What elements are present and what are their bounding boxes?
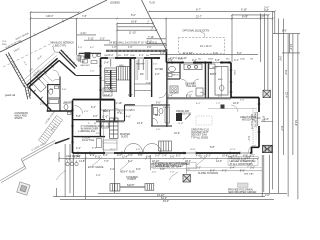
svg-text:6'-2": 6'-2" (91, 106, 96, 109)
svg-text:11'-10": 11'-10" (129, 32, 136, 35)
svg-text:WOOD FLR: WOOD FLR (178, 113, 191, 116)
hall coat closet (103, 88, 112, 96)
dim vertical x232 (231, 15, 233, 62)
svg-text:10'-4": 10'-4" (104, 94, 110, 97)
svg-text:1'-2": 1'-2" (96, 175, 101, 177)
svg-text:63'-0": 63'-0" (163, 200, 169, 203)
dim vertical bottom x262.2 (261, 155, 263, 197)
svg-text:7'-0": 7'-0" (170, 172, 175, 174)
dim top third horizontal right (232, 14, 269, 16)
svg-text:2'-0": 2'-0" (265, 194, 270, 197)
svg-text:8'-0": 8'-0" (280, 126, 283, 131)
svg-text:8'-6": 8'-6" (284, 70, 287, 75)
svg-text:5'-8": 5'-8" (282, 30, 287, 33)
svg-text:2'-0": 2'-0" (156, 129, 161, 131)
svg-text:DN: DN (140, 73, 144, 76)
leader arrows bottom (56, 156, 254, 180)
entry porch step band (106, 50, 167, 52)
wall bath vertical (151, 104, 153, 126)
dim vertical x272.7 (272, 11, 274, 189)
svg-text:3'-0": 3'-0" (155, 154, 160, 157)
svg-text:SUITE: SUITE (121, 136, 128, 139)
dim bar row3 (117, 29, 156, 31)
svg-text:3'-4": 3'-4" (168, 94, 173, 97)
svg-text:4'-0": 4'-0" (78, 47, 83, 49)
svg-text:BA 3: BA 3 (218, 78, 223, 81)
connector top wall (79, 52, 101, 54)
property tick marks (20, 20, 64, 43)
svg-text:2868: 2868 (178, 59, 184, 61)
svg-text:9'-2": 9'-2" (192, 59, 197, 62)
svg-text:SH: SH (250, 59, 253, 61)
kitchen counters (167, 64, 202, 73)
upper deck band hatched (59, 50, 77, 69)
pantry shelves (136, 60, 148, 80)
svg-text:3'-5": 3'-5" (128, 154, 133, 157)
dim left vertical (30, 12, 32, 96)
svg-text:12'-4": 12'-4" (230, 149, 236, 151)
svg-text:LINE (TYP): LINE (TYP) (54, 44, 66, 47)
svg-text:22'-4": 22'-4" (285, 92, 288, 98)
svg-text:7'-4": 7'-4" (162, 154, 167, 157)
svg-text:PORCH: PORCH (128, 178, 137, 181)
note boxes bottom right (153, 162, 196, 168)
window breaks top wall (105, 58, 259, 153)
connector left jamb (78, 53, 80, 62)
closet right (215, 67, 228, 96)
wing interior wall vertical (47, 85, 49, 111)
dim vertical x267.9 (267, 15, 269, 90)
wall right vertical (258, 98, 260, 148)
svg-text:2'-0": 2'-0" (155, 73, 160, 76)
svg-text:FND: FND (2, 44, 7, 46)
powder room sink (68, 112, 72, 115)
great room arcs (231, 105, 238, 112)
hatched post bottom center-right (183, 163, 191, 182)
svg-text:TILE FLR: TILE FLR (186, 85, 197, 88)
svg-text:3'-4": 3'-4" (104, 62, 109, 65)
wall se notch (252, 147, 260, 153)
wall bath horizontal (152, 104, 170, 106)
connector south wall (76, 75, 101, 77)
dim top main horizontal (31, 18, 273, 20)
dim vertical bottom x73.5 (73, 153, 75, 197)
property line diagonal right (142, 0, 167, 50)
setback dashed line parallel (3, 44, 50, 67)
dim vertical x289.3 short (288, 34, 290, 53)
svg-text:4'-8": 4'-8" (163, 107, 168, 109)
option box leader (200, 32, 205, 38)
walkway band upper-left (6, 53, 31, 100)
svg-text:2'-4": 2'-4" (76, 147, 81, 150)
svg-text:2'-1": 2'-1" (139, 55, 144, 57)
svg-text:6'-8": 6'-8" (146, 156, 151, 159)
svg-text:2'-6": 2'-6" (152, 172, 157, 174)
svg-text:3'-1": 3'-1" (234, 59, 239, 62)
wing door arc (53, 70, 59, 76)
svg-text:16'-4" CLG HT: 16'-4" CLG HT (250, 114, 253, 130)
svg-text:8'-2": 8'-2" (176, 154, 181, 157)
svg-text:3'-0": 3'-0" (147, 47, 152, 49)
wall stair-hall vertical (151, 58, 153, 97)
svg-text:FROM BLDG TYP 1/4":12": FROM BLDG TYP 1/4":12" (155, 165, 184, 168)
wardrobe block WIC (110, 118, 119, 138)
svg-text:GRAVEL FILL: GRAVEL FILL (81, 130, 97, 133)
wall laundry vertical (205, 63, 207, 99)
svg-text:6x6 PT: 6x6 PT (127, 184, 135, 187)
min bldg setback leader (53, 46, 61, 53)
svg-text:8'-09": 8'-09" (242, 16, 248, 19)
wing inner partition vertical (59, 76, 61, 111)
dim right horizontal y33.7 (273, 33, 300, 35)
dim vertical bottom x269.6 (269, 155, 271, 193)
svg-text:3'-2": 3'-2" (100, 37, 105, 40)
dim left vertical 2 (76, 19, 78, 56)
svg-text:1'-2": 1'-2" (112, 47, 117, 49)
svg-text:2'-2": 2'-2" (218, 94, 223, 97)
svg-text:7'-2": 7'-2" (216, 103, 221, 105)
svg-text:133'-0": 133'-0" (46, 15, 54, 18)
mudroom door arc (75, 106, 83, 114)
dim vertical x288.1 (287, 34, 289, 197)
interior ceiling line great room (208, 108, 257, 110)
dim vertical x274.8 (274, 11, 276, 33)
svg-text:12x12 TILE: 12x12 TILE (82, 139, 95, 142)
svg-text:2'-2": 2'-2" (250, 154, 255, 157)
dim top-left upper horizontal (31, 11, 80, 13)
svg-text:3068: 3068 (208, 59, 214, 61)
wall laundry south (167, 78, 180, 80)
svg-text:8'-8": 8'-8" (210, 146, 215, 149)
svg-text:9'-6": 9'-6" (136, 168, 141, 171)
wall entry west (165, 49, 167, 63)
dim top second horizontal right (149, 10, 275, 12)
upper band hatch ticks (63, 51, 75, 64)
svg-text:75.0': 75.0' (2, 41, 7, 43)
dim bar row1 (117, 22, 153, 24)
gas meters (66, 161, 78, 166)
svg-text:6'-2": 6'-2" (90, 47, 95, 49)
svg-text:4'-6": 4'-6" (196, 154, 201, 157)
wall hall horizontal right (167, 97, 231, 99)
dim left section upper (84, 39, 110, 41)
wing bed fixture (33, 79, 46, 92)
svg-text:75.00': 75.00' (149, 3, 156, 5)
svg-text:SEE 3/A5: SEE 3/A5 (244, 173, 254, 176)
svg-text:4'-0": 4'-0" (110, 168, 115, 171)
left section stub walls (111, 58, 152, 97)
svg-text:2'-0": 2'-0" (90, 71, 95, 73)
wing NE wall (59, 60, 76, 75)
dim vertical x150.5 (150, 155, 152, 170)
svg-text:PWDR: PWDR (64, 102, 72, 105)
svg-text:3'-4": 3'-4" (247, 136, 250, 141)
entry court planters (77, 56, 97, 64)
svg-text:BATH: BATH (210, 73, 216, 76)
svg-text:MECH: MECH (172, 75, 179, 77)
svg-text:5'-2": 5'-2" (206, 154, 211, 157)
right wall dim stub (261, 120, 273, 122)
svg-text:4'-2": 4'-2" (160, 52, 165, 55)
svg-text:16'-8": 16'-8" (131, 21, 137, 24)
wing deck edge lines (26, 56, 56, 83)
svg-text:SLOPE TO DRAIN: SLOPE TO DRAIN (198, 172, 218, 175)
dim verticals master (103, 110, 105, 152)
annotation noise clusters (2, 20, 254, 176)
svg-text:5'-6": 5'-6" (138, 154, 143, 157)
porch note text row (109, 41, 158, 57)
wall laundry east double (207, 64, 209, 99)
svg-text:6'-1": 6'-1" (103, 154, 108, 157)
dim bar row2 (117, 26, 155, 28)
dim above right wall (150, 54, 258, 56)
svg-text:22'-0": 22'-0" (233, 102, 239, 105)
svg-text:0'-6": 0'-6" (264, 9, 269, 12)
wall mid-left horizontal (73, 99, 115, 101)
closet left small (102, 122, 109, 128)
gray box right of posts (238, 183, 249, 187)
svg-text:3'-6": 3'-6" (62, 89, 67, 91)
svg-text:2'-6": 2'-6" (153, 64, 158, 66)
wall tick marks texture (71, 57, 261, 155)
wall entry vertical lower (166, 63, 168, 128)
right wall annotation column (252, 108, 254, 144)
bottom band extra marks (88, 166, 135, 177)
hatched pier SE corner (263, 145, 273, 152)
svg-text:W.I.C.: W.I.C. (212, 67, 218, 69)
bath fixtures center (154, 107, 170, 123)
dim bottom long 3 (60, 198, 274, 200)
svg-text:8'-11": 8'-11" (262, 116, 265, 122)
dim vertical x292.9 (292, 34, 294, 155)
porch beam (120, 185, 145, 187)
wing inner wall horizontal (47, 84, 60, 86)
kitchen range (170, 86, 178, 93)
wing bath wall horizontal (48, 97, 60, 99)
dim stack row5 (147, 43, 167, 45)
svg-text:10' x 14'-2": 10' x 14'-2" (200, 45, 212, 48)
svg-text:5'-3": 5'-3" (84, 111, 89, 113)
exterior steps band (39, 116, 63, 145)
svg-text:5'-2": 5'-2" (109, 55, 114, 57)
interior wall shadow lines (73, 58, 232, 138)
svg-text:5'-0": 5'-0" (131, 14, 136, 17)
wall top-left section (101, 57, 161, 59)
svg-text:BED 2: BED 2 (103, 110, 111, 113)
svg-text:9'-0": 9'-0" (117, 154, 122, 157)
wall jog horizontal (231, 97, 259, 99)
svg-text:8'-6": 8'-6" (240, 170, 245, 173)
wall stair-hall east (130, 58, 132, 97)
bed2 dim line (101, 109, 135, 111)
porch post east (145, 184, 154, 191)
svg-text:4'-0": 4'-0" (126, 116, 131, 119)
porch edge line pair (104, 44, 167, 46)
svg-text:5068: 5068 (233, 70, 235, 76)
svg-text:2'-11": 2'-11" (81, 32, 87, 35)
svg-text:5'-8": 5'-8" (76, 115, 81, 118)
svg-text:6'-10": 6'-10" (241, 9, 247, 12)
wall bath south (151, 125, 172, 127)
wing window ticks (31, 65, 54, 105)
svg-text:5'-11": 5'-11" (88, 37, 94, 40)
svg-text:10'-2": 10'-2" (289, 44, 292, 50)
dim vertical x264.4 (263, 13, 265, 90)
svg-text:3'-6": 3'-6" (76, 156, 81, 159)
svg-text:11'-8": 11'-8" (178, 123, 184, 125)
svg-text:5'-2": 5'-2" (128, 160, 133, 163)
connector bath WC (93, 53, 97, 58)
master bed (97, 139, 102, 148)
svg-text:14'-8": 14'-8" (79, 160, 85, 163)
dim vertical bottom x114.4 (113, 159, 115, 194)
dim stack row4 (147, 38, 167, 40)
dim vertical x278.6 (278, 19, 280, 194)
svg-text:6'-0": 6'-0" (136, 149, 141, 151)
svg-text:4'-2": 4'-2" (222, 170, 227, 173)
wing door arc 2 (53, 79, 60, 81)
svg-text:6'-1": 6'-1" (147, 41, 152, 44)
dim vertical x59 tick (58, 152, 60, 162)
svg-text:2'-2": 2'-2" (196, 166, 201, 169)
dim bottom long 2 (53, 196, 265, 198)
dim right horizontal y52.9 (282, 52, 300, 54)
svg-text:3'-0": 3'-0" (250, 166, 255, 169)
svg-text:HALL: HALL (119, 64, 126, 67)
svg-text:10'-6": 10'-6" (96, 133, 102, 135)
svg-text:2'-8": 2'-8" (40, 103, 45, 106)
wall right upper vertical (230, 63, 232, 98)
svg-text:11'-0 3/4": 11'-0 3/4" (183, 52, 193, 55)
svg-text:31'-6": 31'-6" (294, 120, 297, 126)
svg-text:OPTIONAL BLDG EXT'N: OPTIONAL BLDG EXT'N (183, 30, 210, 33)
wing south wall (47, 110, 73, 112)
svg-text:PROVIDE POS DRAIN: PROVIDE POS DRAIN (228, 189, 253, 192)
powder room WC (64, 104, 68, 109)
wall laundry west (179, 64, 181, 80)
svg-text:5'-0": 5'-0" (170, 156, 175, 159)
laundry fixtures (168, 64, 224, 91)
wall bed horizontal (96, 120, 125, 122)
svg-text:12'-0": 12'-0" (216, 160, 222, 163)
wall mid jog (125, 104, 136, 106)
dim bar left cap (116, 23, 118, 30)
svg-text:2040: 2040 (130, 55, 136, 57)
svg-text:10'-8": 10'-8" (222, 154, 228, 157)
svg-text:7'-7": 7'-7" (92, 147, 97, 150)
svg-text:AT ALL CONDITIONS: AT ALL CONDITIONS (230, 163, 254, 166)
svg-text:3'-0": 3'-0" (93, 115, 98, 118)
svg-text:GALLERY: GALLERY (80, 64, 91, 67)
svg-text:8'-11": 8'-11" (95, 156, 101, 159)
svg-text:1'-9": 1'-9" (104, 70, 109, 73)
svg-text:1'-0": 1'-0" (260, 16, 265, 19)
svg-text:LEGEND: LEGEND (110, 2, 120, 5)
wing SW wall (29, 87, 52, 110)
svg-text:13'-2": 13'-2" (137, 122, 143, 125)
wall mudroom south (74, 135, 106, 137)
svg-text:EXIST GRADE: EXIST GRADE (88, 166, 104, 169)
svg-text:11'-6": 11'-6" (102, 116, 108, 119)
svg-text:2'-9": 2'-9" (90, 154, 95, 157)
svg-text:guard rail: guard rail (5, 94, 15, 97)
svg-text:BA 2: BA 2 (155, 114, 161, 117)
svg-text:7'-8": 7'-8" (82, 15, 87, 18)
svg-text:15'-2": 15'-2" (110, 149, 116, 151)
dim bar drop vertical (116, 30, 118, 58)
wall bottom (73, 152, 252, 154)
svg-text:8'-4": 8'-4" (78, 131, 83, 133)
svg-text:DH: DH (146, 55, 150, 57)
connector shelf (81, 56, 85, 62)
svg-text:TYP ALL SIDES: TYP ALL SIDES (191, 136, 209, 139)
svg-text:5'-0": 5'-0" (237, 52, 242, 55)
svg-text:NEW 4" SLAB: NEW 4" SLAB (120, 171, 135, 174)
svg-text:2x6 AT 16" OC: 2x6 AT 16" OC (254, 112, 257, 128)
wall bed hall vertical (114, 100, 116, 122)
dim vertical x297.9 (297, 34, 299, 200)
connector bath sink (98, 54, 101, 56)
dim bottom long 1 (98, 192, 287, 194)
stairs main U-shape (105, 67, 130, 92)
svg-text:8'-7": 8'-7" (196, 9, 201, 12)
svg-text:9'-2": 9'-2" (66, 158, 71, 161)
wall mudroom east (100, 100, 102, 137)
svg-text:18'-8": 18'-8" (190, 149, 196, 151)
wing vanity (55, 86, 59, 89)
wall bed vertical2 (124, 105, 126, 121)
svg-text:LIN: LIN (108, 74, 112, 76)
svg-text:5'-0": 5'-0" (156, 101, 161, 104)
svg-text:2'-10": 2'-10" (116, 102, 122, 105)
fireplace dining (176, 113, 182, 121)
svg-text:6'-8": 6'-8" (124, 55, 129, 57)
svg-text:6'-4": 6'-4" (196, 103, 201, 105)
door arcs (101, 79, 207, 124)
svg-text:4'-6": 4'-6" (128, 47, 133, 49)
svg-text:LINEN: LINEN (104, 126, 111, 128)
hatched pier bottom-left (17, 182, 30, 195)
wing tub (49, 100, 59, 104)
kitchen fridge (196, 88, 203, 96)
dim under building (59, 158, 258, 160)
dim vertical bottom x56.7 (56, 188, 58, 197)
svg-text:3'-2": 3'-2" (128, 94, 133, 97)
svg-text:FOYER: FOYER (155, 68, 164, 71)
dim vertical bottom x85.6 (85, 153, 87, 199)
svg-text:3'-8": 3'-8" (240, 100, 245, 102)
svg-text:7'-10": 7'-10" (148, 36, 154, 39)
wing NW wall hatched (27, 58, 59, 87)
wing closet lines (44, 73, 53, 82)
property line diagonal top-left (0, 0, 107, 52)
svg-text:PAN: PAN (108, 83, 113, 86)
patio edge lines bottom right (186, 170, 262, 172)
fireplace box (85, 52, 91, 59)
wing WC fixture (49, 89, 53, 95)
dim vertical x260.7 (260, 13, 262, 62)
dining table dashed (196, 116, 212, 125)
svg-text:3'-6": 3'-6" (279, 56, 282, 61)
dim vertical x283.3 (282, 19, 284, 156)
svg-text:PANTRY: PANTRY (136, 63, 145, 66)
dim vertical bottom x70 (69, 144, 71, 193)
svg-text:7'-6": 7'-6" (213, 52, 218, 55)
dim entry vertical (165, 19, 167, 49)
svg-text:10'-0": 10'-0" (174, 132, 180, 135)
dim vertical bottom x65 (64, 144, 66, 197)
porch post west (110, 184, 120, 191)
